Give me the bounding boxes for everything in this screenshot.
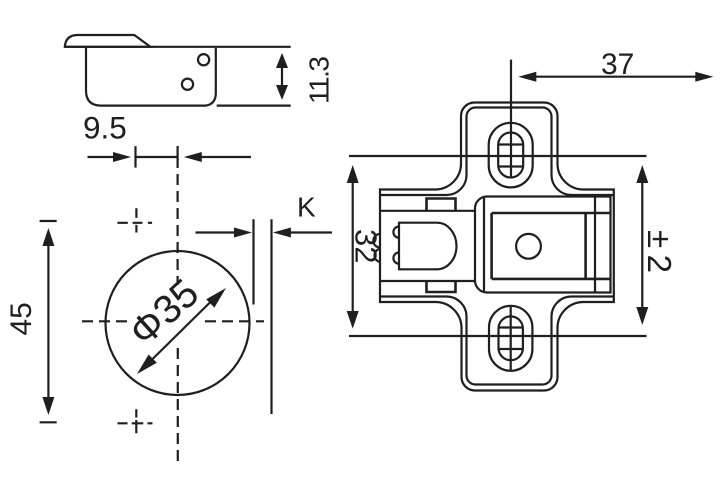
center line horizontal dashed	[82, 320, 128, 322]
plate inner edge top	[380, 108, 614, 196]
dim 9.5 right arrow	[184, 152, 251, 162]
clip notch bottom	[427, 281, 456, 292]
dim 37	[518, 72, 713, 82]
cover inner rect top line	[492, 212, 611, 215]
svg-text:K: K	[297, 192, 316, 223]
bottom oval screw cross	[499, 306, 523, 371]
cover inner vertical left inner	[490, 213, 493, 279]
svg-text:11.3: 11.3	[304, 57, 335, 104]
bottom oval slot outer	[489, 306, 532, 371]
svg-text:45: 45	[5, 302, 38, 335]
cover inner vertical left outer	[483, 197, 485, 293]
cover outline	[475, 197, 611, 293]
dim 9.5 left arrow	[88, 152, 132, 162]
adjustment screw hole	[516, 234, 541, 259]
door bottom line	[217, 104, 291, 106]
top oval slot inner	[498, 133, 523, 178]
screw hole mark bottom	[118, 409, 153, 433]
top oval slot outer	[489, 123, 533, 188]
body inner section bottom line	[380, 280, 475, 282]
svg-text:37: 37	[601, 48, 634, 81]
plate center line	[510, 60, 512, 177]
door top line	[65, 46, 291, 48]
K reference line long	[270, 219, 272, 414]
cup hole upper	[198, 54, 209, 65]
extension line bottom	[349, 335, 647, 337]
plate outer outline	[380, 103, 614, 391]
cover inner vertical right outer	[594, 197, 596, 293]
cup flange cap	[65, 35, 151, 47]
dim 32 arrow	[347, 165, 359, 329]
dim 9.5 line	[136, 156, 178, 158]
dim 45 arrow	[42, 228, 54, 415]
clip ear upper	[373, 234, 380, 247]
dim 9.5 tick	[134, 146, 136, 167]
bottom oval slot inner	[499, 316, 523, 360]
svg-text:9.5: 9.5	[83, 110, 127, 146]
cam D-shape	[399, 223, 457, 270]
svg-text:Φ35: Φ35	[121, 271, 207, 355]
clip ear lower	[374, 249, 380, 262]
extension line top	[349, 155, 647, 157]
cup hole lower	[182, 79, 193, 90]
body inner section top line	[380, 210, 475, 212]
screw hole mark top	[117, 208, 152, 232]
plate inner edge bottom	[380, 297, 614, 385]
svg-text:±2: ±2	[641, 230, 678, 279]
dim K right arrow	[273, 228, 332, 238]
cam bump lower	[393, 253, 399, 264]
top oval screw cross	[499, 145, 523, 167]
dim plus/minus 2 arrow	[636, 165, 648, 325]
dim 11.3 arrow	[276, 53, 288, 100]
dim K left arrow	[196, 228, 253, 238]
drill diameter arrow	[137, 288, 226, 374]
cup body outline	[86, 47, 216, 106]
cup drill circle	[106, 251, 250, 395]
center line vertical dashed	[177, 146, 179, 168]
cover inner vertical right inner	[584, 213, 587, 279]
clip notch top	[427, 199, 456, 211]
dim 45 ticks	[40, 221, 57, 422]
cam bump upper	[393, 227, 399, 238]
K reference line short	[252, 219, 254, 304]
cover inner rect bottom line	[492, 278, 611, 281]
